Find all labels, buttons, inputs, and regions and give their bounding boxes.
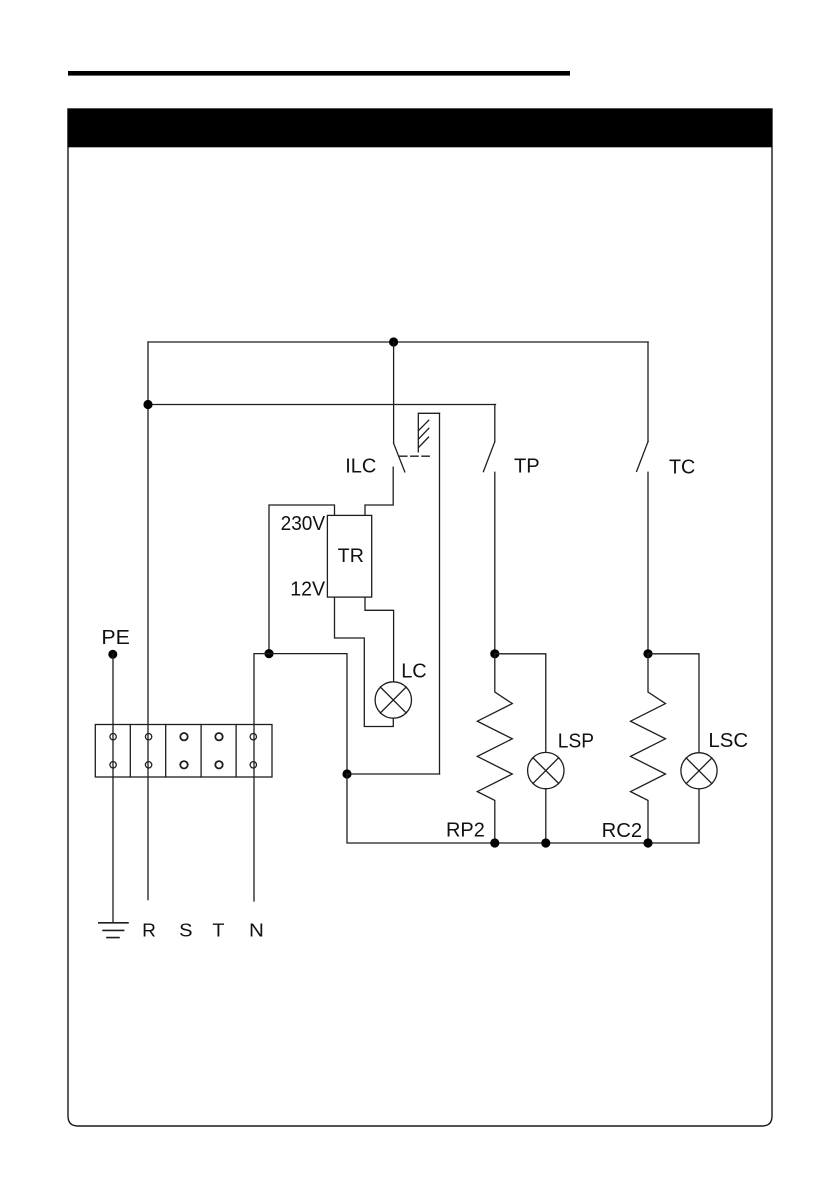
- wire TC lower lead: [647, 472, 649, 654]
- node neutral junction: [264, 649, 273, 658]
- switch ILC mechanical link (dashed): [400, 455, 430, 457]
- svg-text:LSP: LSP: [558, 730, 594, 752]
- node junction TP branch: [490, 649, 499, 658]
- ground symbol: [99, 923, 128, 938]
- wire lamp LSC bottom lead: [698, 789, 700, 843]
- wire TC feed: [647, 342, 649, 442]
- wire neutral rail to center: [269, 654, 347, 774]
- wire transformer primary left lead: [269, 505, 335, 654]
- wire TP feed: [494, 405, 496, 442]
- wire neutral jog to N riser: [254, 654, 269, 901]
- svg-text:TC: TC: [669, 456, 695, 478]
- svg-text:ILC: ILC: [345, 456, 376, 478]
- wire center node to ILC return: [347, 773, 440, 775]
- terminal block body: [95, 725, 272, 778]
- node junction center: [342, 769, 351, 778]
- wire ILC return (to node): [439, 413, 441, 774]
- node junction top rail / ILC: [389, 337, 398, 346]
- terminal holes row 2: [110, 762, 116, 768]
- wire transformer secondary left lead to lamp LC bottom: [335, 597, 394, 726]
- lamp LC: [375, 682, 411, 718]
- resistor RP2: [477, 654, 512, 843]
- svg-text:PE: PE: [101, 627, 129, 649]
- terminal block dividers: [130, 725, 236, 778]
- svg-text:LC: LC: [401, 661, 426, 683]
- svg-text:T: T: [212, 920, 224, 941]
- svg-text:LSC: LSC: [708, 730, 748, 752]
- terminal holes row 1: [110, 734, 116, 740]
- svg-text:S: S: [179, 920, 192, 941]
- lamp LSP: [528, 752, 564, 788]
- wire PE conductor: [112, 654, 114, 922]
- node junction LSP bottom: [541, 838, 550, 847]
- wire center node down to bottom rail: [347, 774, 699, 843]
- svg-text:TP: TP: [514, 455, 540, 477]
- switch ILC blade: [394, 443, 405, 472]
- svg-text:R: R: [142, 920, 156, 941]
- wire TP branch to lamp LSP: [495, 654, 546, 753]
- wire TC branch to lamp LSC: [648, 654, 699, 753]
- transformer TR body: [327, 515, 371, 597]
- node junction second rail / R riser: [143, 400, 152, 409]
- node junction RC2 bottom: [643, 838, 652, 847]
- node PE terminal: [108, 650, 117, 659]
- wire lamp LSP bottom lead: [545, 789, 547, 843]
- resistor RC2: [631, 654, 666, 843]
- wire transformer secondary right lead to lamp LC top: [365, 597, 394, 682]
- switch TP blade: [483, 442, 494, 472]
- svg-text:RP2: RP2: [446, 820, 485, 842]
- wire second supply rail: [148, 404, 496, 406]
- wire R phase riser: [147, 342, 149, 900]
- switch TC blade: [637, 442, 648, 472]
- svg-text:12V: 12V: [290, 578, 326, 600]
- wire ILC feed: [393, 342, 395, 443]
- wire top supply rail: [148, 341, 648, 343]
- svg-text:230V: 230V: [281, 513, 326, 535]
- switch ILC thermal element hatch: [419, 420, 429, 447]
- lamp LSC: [681, 753, 717, 789]
- wire TP lower lead: [494, 472, 496, 654]
- node junction RP2 bottom: [490, 838, 499, 847]
- svg-text:RC2: RC2: [602, 820, 643, 842]
- wire ILC lower lead to transformer primary: [365, 467, 393, 515]
- node junction TC branch: [643, 649, 652, 658]
- switch ILC thermal element box: [418, 413, 439, 452]
- svg-text:N: N: [249, 920, 264, 941]
- svg-text:TR: TR: [338, 546, 364, 567]
